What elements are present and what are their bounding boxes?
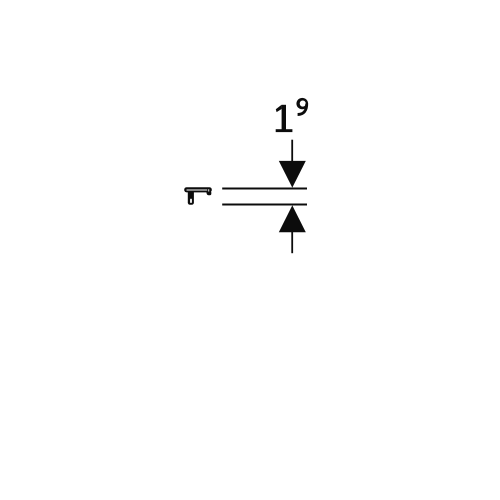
pin icon bar highlight bbox=[186, 190, 207, 191]
pin icon bar bbox=[184, 187, 212, 192]
pin icon stem bbox=[188, 190, 194, 205]
pin icon cap gap bbox=[207, 189, 210, 191]
lower dimension line bbox=[222, 204, 307, 206]
step number 1 (digit drawn as shapes) bbox=[276, 105, 293, 132]
pin icon hook bbox=[206, 191, 211, 195]
up arrow head bbox=[279, 205, 306, 232]
pin icon stem slot bbox=[190, 199, 192, 203]
upper dimension line bbox=[222, 188, 307, 190]
down arrow head bbox=[279, 161, 306, 188]
up arrow stem bbox=[291, 232, 293, 254]
down arrow stem bbox=[291, 140, 293, 163]
superscript 9 bbox=[296, 98, 308, 115]
